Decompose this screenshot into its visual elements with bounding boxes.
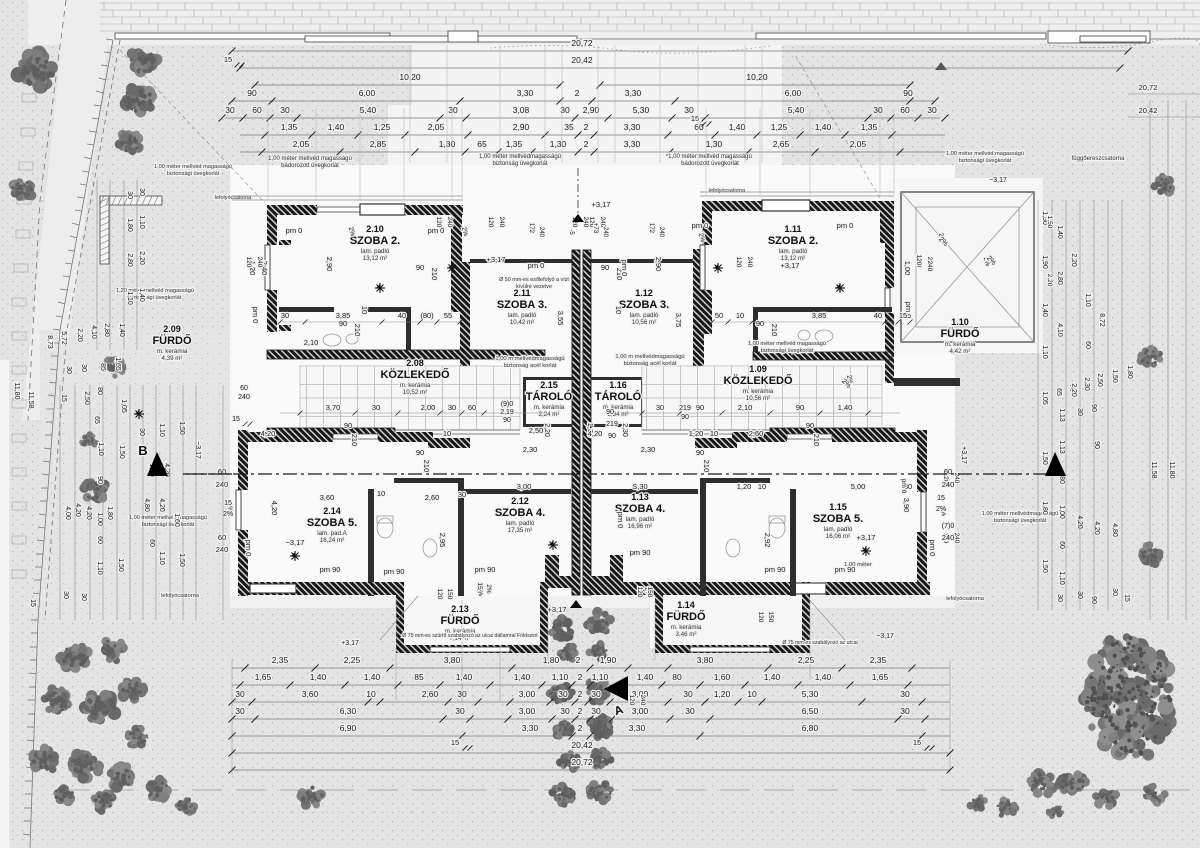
svg-text:2,60: 2,60 [422, 689, 439, 699]
tree at 597,691 [586, 678, 611, 706]
svg-text:210: 210 [430, 268, 439, 281]
svg-text:−3,17: −3,17 [876, 633, 894, 640]
svg-text:1.11: 1.11 [784, 224, 801, 234]
svg-text:10: 10 [614, 306, 623, 314]
svg-text:−3,17: −3,17 [989, 177, 1007, 184]
svg-text:120: 120 [735, 257, 742, 268]
svg-text:2,20: 2,20 [1070, 253, 1077, 267]
svg-text:1,00 m mellvédmagasságú: 1,00 m mellvédmagasságú [615, 354, 684, 360]
tree at 1150,357 [1137, 345, 1164, 368]
svg-text:30: 30 [1076, 591, 1083, 599]
svg-text:40: 40 [398, 311, 406, 320]
FURDO 1.10 bottom wall [894, 378, 960, 386]
svg-text:3,80: 3,80 [444, 655, 461, 665]
svg-text:2: 2 [584, 139, 589, 149]
retaining wall bars top [115, 31, 1150, 43]
svg-text:1,60: 1,60 [714, 672, 731, 682]
corridor bottom wall right [770, 428, 895, 436]
room label 2.14 SZOBA 5. [307, 506, 357, 544]
svg-text:50: 50 [715, 311, 723, 320]
svg-text:1,05: 1,05 [120, 399, 127, 413]
svg-text:+3,17: +3,17 [592, 200, 611, 209]
svg-text:85: 85 [414, 672, 424, 682]
tree at 85,765 [68, 749, 104, 784]
corridor wall left unit [267, 350, 545, 359]
svg-text:2,20: 2,20 [1070, 383, 1077, 397]
svg-text:2,25: 2,25 [798, 655, 815, 665]
svg-text:65: 65 [1055, 388, 1062, 396]
svg-text:KÖZLEKEDŐ: KÖZLEKEDŐ [380, 368, 450, 381]
svg-text:1,40: 1,40 [838, 403, 853, 412]
svg-text:90: 90 [606, 409, 614, 416]
tree at 64,793 [54, 784, 76, 806]
svg-text:1,10: 1,10 [158, 551, 165, 565]
tree at 114,368 [100, 356, 127, 379]
svg-text:16,06 m²: 16,06 m² [826, 533, 850, 540]
svg-text:pm 0: pm 0 [900, 479, 907, 494]
top construction vertical lines [268, 45, 894, 200]
svg-text:Ø 50 mm-es esőlefolyó a vízt: Ø 50 mm-es esőlefolyó a vízt [499, 277, 569, 283]
svg-text:15: 15 [913, 738, 921, 747]
svg-text:(80): (80) [420, 311, 434, 320]
svg-text:lam. padló: lam. padló [626, 516, 655, 523]
room label 1.14 FÜRDŐ [666, 600, 706, 638]
svg-text:3,00: 3,00 [519, 689, 536, 699]
svg-text:(9)0: (9)0 [501, 401, 514, 408]
svg-text:3,90: 3,90 [902, 498, 911, 513]
svg-text:1,80: 1,80 [1041, 501, 1048, 515]
svg-text:2.12: 2.12 [511, 496, 529, 506]
svg-text:biztonság üvegkorlát: biztonság üvegkorlát [492, 161, 547, 167]
inner walls right unit corridor [753, 307, 892, 312]
svg-text:1,25: 1,25 [374, 122, 391, 132]
room label 2.10 SZOBA 2. [350, 224, 400, 262]
wall top SZOBA2 left [267, 205, 317, 215]
svg-text:biztonsági üvegkorlát: biztonsági üvegkorlát [994, 518, 1047, 524]
svg-text:2,60: 2,60 [749, 429, 764, 438]
svg-text:1.09: 1.09 [749, 364, 767, 374]
svg-text:5,30: 5,30 [633, 105, 650, 115]
svg-text:1,80: 1,80 [543, 655, 560, 665]
svg-text:1,50: 1,50 [117, 558, 124, 572]
svg-text:240: 240 [216, 480, 229, 489]
svg-text:3,85: 3,85 [336, 311, 351, 320]
svg-text:S,30: S,30 [632, 482, 647, 491]
svg-text:6,50: 6,50 [802, 706, 819, 716]
svg-text:1,35: 1,35 [861, 122, 878, 132]
svg-text:1,05: 1,05 [1041, 391, 1048, 405]
dimension chain top 20,42 [240, 67, 1120, 69]
svg-text:1.14: 1.14 [677, 600, 695, 610]
svg-text:5,72: 5,72 [60, 331, 67, 345]
tree at 95,490 [79, 478, 109, 503]
svg-text:210: 210 [353, 324, 362, 337]
svg-text:2%: 2% [223, 511, 233, 518]
svg-text:60: 60 [96, 536, 103, 544]
svg-text:+3,17: +3,17 [341, 640, 359, 647]
svg-text:5,30: 5,30 [802, 689, 819, 699]
corridor bottom wall left [267, 428, 395, 436]
tree at 312,796 [296, 786, 326, 810]
svg-text:1,00 méter mellvéd magasságú: 1,00 méter mellvéd magasságú [946, 151, 1024, 157]
svg-text:30: 30 [1111, 588, 1118, 596]
svg-text:1,65: 1,65 [872, 672, 889, 682]
svg-text:−3,17: −3,17 [286, 538, 305, 547]
porch white area right [888, 178, 1043, 353]
svg-text:1.10: 1.10 [951, 317, 969, 327]
svg-text:240: 240 [602, 227, 608, 238]
svg-text:5,40: 5,40 [360, 105, 377, 115]
svg-text:2,35: 2,35 [272, 655, 289, 665]
tree at 598,652 [586, 640, 608, 662]
svg-text:60: 60 [1084, 341, 1091, 349]
svg-text:m. kerámia: m. kerámia [945, 341, 976, 348]
svg-text:3,00: 3,00 [517, 482, 532, 491]
svg-text:5,00: 5,00 [851, 482, 866, 491]
svg-text:1,50: 1,50 [178, 421, 185, 435]
tree at 138,100 [120, 83, 157, 117]
SZOBA3 right unit right wall [693, 249, 704, 374]
small level triangles [572, 214, 584, 222]
svg-text:30: 30 [138, 188, 145, 196]
svg-text:90: 90 [601, 263, 609, 272]
svg-text:20,72: 20,72 [571, 38, 593, 48]
svg-text:2,05: 2,05 [428, 122, 445, 132]
svg-text:pm 90: pm 90 [630, 548, 651, 557]
svg-text:FÜRDŐ: FÜRDŐ [666, 610, 706, 623]
svg-text:2,20: 2,20 [138, 251, 145, 265]
svg-text:15: 15 [224, 500, 232, 507]
svg-text:2.09: 2.09 [163, 324, 181, 334]
svg-text:120: 120 [636, 587, 643, 598]
svg-text:1,80: 1,80 [1126, 365, 1133, 379]
svg-text:15: 15 [476, 582, 483, 590]
svg-text:65: 65 [477, 139, 487, 149]
svg-text:1,65: 1,65 [255, 672, 272, 682]
svg-text:240: 240 [582, 217, 589, 228]
svg-text:+73: +73 [592, 223, 598, 234]
svg-text:80: 80 [1058, 476, 1065, 484]
svg-text:30: 30 [455, 706, 465, 716]
svg-text:240: 240 [446, 217, 453, 228]
svg-text:pm 90: pm 90 [765, 565, 786, 574]
svg-text:80: 80 [96, 387, 103, 395]
svg-text:240: 240 [538, 227, 544, 238]
svg-text:60: 60 [240, 385, 248, 392]
dimension chain top row6 [240, 151, 945, 153]
svg-text:20,42: 20,42 [571, 740, 593, 750]
svg-text:90: 90 [806, 421, 814, 430]
tree at 601,760 [590, 747, 615, 770]
svg-text:1.16: 1.16 [609, 380, 627, 390]
svg-text:1,13: 1,13 [1058, 408, 1065, 422]
room label 1.16 TÁROLÓ [595, 380, 642, 418]
svg-text:30: 30 [685, 706, 695, 716]
svg-text:2.15: 2.15 [540, 380, 558, 390]
svg-text:90: 90 [756, 319, 764, 328]
room label 2.09 FÜRDŐ [152, 324, 192, 362]
svg-text:30: 30 [1056, 594, 1063, 602]
svg-text:-5: -5 [568, 229, 574, 235]
svg-text:30: 30 [448, 105, 458, 115]
svg-text:30: 30 [458, 490, 466, 499]
svg-text:240: 240 [216, 545, 229, 554]
svg-text:219: 219 [679, 405, 691, 412]
tree at 105,801 [91, 789, 117, 815]
TAROLO 2.15 box walls [523, 377, 572, 380]
bottom wall right unit [591, 582, 661, 595]
svg-text:biztonsági üvegkorlát: biztonsági üvegkorlát [761, 348, 814, 354]
svg-text:2,25: 2,25 [344, 655, 361, 665]
svg-text:30: 30 [457, 689, 467, 699]
svg-text:13,12 m²: 13,12 m² [363, 255, 387, 262]
svg-text:2,20: 2,20 [1046, 274, 1053, 287]
section marker A bottom triangle [604, 676, 628, 701]
svg-text:1,20: 1,20 [689, 429, 704, 438]
wall left SZOBA2 right unit [702, 201, 712, 245]
left vertical chain lines [60, 180, 223, 620]
svg-text:SZOBA 2.: SZOBA 2. [350, 235, 400, 247]
svg-text:2,92: 2,92 [763, 533, 772, 548]
svg-text:3,00: 3,00 [632, 706, 649, 716]
svg-text:60: 60 [148, 539, 155, 547]
svg-text:biztonság acél korlát: biztonság acél korlát [504, 363, 557, 369]
svg-text:11,58: 11,58 [27, 392, 34, 409]
svg-text:bádorozott üvegkorlát: bádorozott üvegkorlát [681, 161, 739, 167]
svg-text:4,20: 4,20 [1076, 515, 1083, 529]
tree at 978,804 [967, 794, 988, 812]
svg-text:240: 240 [926, 261, 933, 272]
top wall lower band left [238, 432, 333, 442]
svg-text:+3,17: +3,17 [781, 261, 800, 270]
SZOBA4 right unit top wall [591, 489, 698, 494]
svg-text:1,35: 1,35 [281, 122, 298, 132]
svg-text:1,50: 1,50 [1111, 369, 1118, 383]
svg-text:240: 240 [658, 227, 664, 238]
svg-text:30: 30 [126, 191, 133, 199]
svg-text:1.12: 1.12 [635, 288, 653, 298]
svg-text:15: 15 [937, 495, 945, 502]
svg-text:55: 55 [444, 311, 452, 320]
svg-text:bádorozott üvegkorlát: bádorozott üvegkorlát [281, 163, 339, 169]
svg-text:10: 10 [710, 429, 718, 438]
svg-text:1,35: 1,35 [506, 139, 523, 149]
svg-text:SZOBA 4.: SZOBA 4. [495, 507, 545, 519]
svg-text:15: 15 [29, 599, 36, 607]
svg-text:90: 90 [96, 476, 103, 484]
room label 1.15 SZOBA 5. [813, 502, 863, 540]
wall left SZOBA2 upper [267, 205, 277, 245]
dimension chain top row5 [240, 134, 945, 136]
tree at 134,690 [118, 677, 149, 704]
dim row under szoba2 left [280, 321, 460, 323]
svg-text:2,30: 2,30 [641, 445, 656, 454]
wall top SZOBA2 right unit [702, 201, 762, 211]
tree at 600,793 [586, 780, 614, 805]
svg-text:2: 2 [575, 88, 580, 98]
svg-text:2,30: 2,30 [523, 445, 538, 454]
plan bottom white band [230, 596, 955, 608]
svg-text:219: 219 [606, 421, 618, 428]
svg-text:lefolyócsatorna: lefolyócsatorna [946, 596, 985, 602]
svg-text:4,20: 4,20 [261, 429, 276, 438]
svg-text:3,85: 3,85 [812, 311, 827, 320]
tree at 1041,784 [1027, 768, 1058, 798]
svg-text:m. kerámia: m. kerámia [157, 348, 188, 355]
svg-text:lefolyócsatorna: lefolyócsatorna [161, 593, 200, 599]
svg-text:TÁROLÓ: TÁROLÓ [595, 390, 642, 403]
svg-text:90: 90 [339, 319, 347, 328]
svg-text:1,40: 1,40 [138, 288, 145, 302]
svg-text:2,80: 2,80 [126, 253, 133, 267]
svg-text:2,50: 2,50 [1096, 373, 1103, 387]
big tree bottom right [1078, 633, 1177, 760]
tree at 185,806 [175, 797, 199, 816]
svg-text:11,80: 11,80 [1168, 462, 1175, 479]
svg-text:pm 0: pm 0 [616, 512, 625, 529]
diag leader top left [120, 50, 265, 203]
svg-text:2,90: 2,90 [654, 257, 663, 272]
window top wall left [360, 204, 405, 215]
svg-text:30: 30 [558, 689, 568, 699]
svg-text:+3,17: +3,17 [548, 605, 567, 614]
top-center white drawing zone [388, 45, 782, 165]
svg-text:3,30: 3,30 [522, 723, 539, 733]
inner wall below SZOBA2 [279, 307, 334, 312]
svg-text:2.08: 2.08 [406, 358, 424, 368]
left boundary white band [22, 0, 114, 420]
svg-text:1.13: 1.13 [631, 492, 649, 502]
svg-text:FÜRDŐ: FÜRDŐ [152, 334, 192, 347]
svg-text:30: 30 [372, 403, 380, 412]
outer right wall lower [917, 430, 927, 492]
svg-text:4,20: 4,20 [270, 501, 279, 516]
svg-text:Ø 75 mm-es szabályozó az utcai: Ø 75 mm-es szabályozó az utcai [782, 640, 857, 646]
svg-text:90: 90 [796, 403, 804, 412]
bath fixtures corridor pockets [323, 330, 833, 557]
svg-text:m. kerámia: m. kerámia [671, 624, 702, 631]
fence strip top white [28, 0, 1200, 45]
svg-text:30: 30 [280, 105, 290, 115]
svg-text:−3,17: −3,17 [194, 441, 201, 459]
svg-text:16,96 m²: 16,96 m² [628, 523, 652, 530]
svg-text:60: 60 [694, 122, 704, 132]
svg-text:240: 240 [746, 257, 753, 268]
svg-text:3,30: 3,30 [517, 88, 534, 98]
svg-text:30: 30 [80, 364, 87, 372]
wall right of SZOBA2 [451, 207, 462, 312]
svg-text:3,30: 3,30 [624, 139, 641, 149]
svg-text:1,40: 1,40 [456, 672, 473, 682]
room label 2.12 SZOBA 4. [495, 496, 545, 534]
svg-text:1,40: 1,40 [815, 672, 832, 682]
svg-text:2,10: 2,10 [738, 403, 753, 412]
svg-text:m. kerámia: m. kerámia [400, 382, 431, 389]
tree at 562,629 [548, 614, 574, 642]
svg-text:biztonság acél korlát: biztonság acél korlát [624, 361, 677, 367]
svg-text:pm 90: pm 90 [475, 565, 496, 574]
svg-text:4,20: 4,20 [85, 506, 92, 520]
svg-text:3,30: 3,30 [625, 88, 642, 98]
tree at 565,729 [552, 720, 574, 740]
svg-text:20,72: 20,72 [571, 757, 593, 767]
room label 1.12 SZOBA 3. [619, 288, 669, 326]
svg-text:1,50: 1,50 [1041, 451, 1048, 465]
svg-text:4,80: 4,80 [1111, 523, 1118, 537]
room label 2.15 TÁROLÓ [526, 380, 573, 418]
svg-text:1,40: 1,40 [815, 122, 832, 132]
svg-text:15: 15 [1123, 594, 1130, 602]
svg-text:60: 60 [1058, 541, 1065, 549]
SZOBA3 top thin wall [470, 259, 572, 263]
svg-text:pm 90: pm 90 [835, 565, 856, 574]
svg-text:1,40: 1,40 [328, 122, 345, 132]
svg-text:3,75: 3,75 [674, 313, 683, 328]
svg-text:5,40: 5,40 [788, 105, 805, 115]
party wall axis dashdot [577, 168, 579, 214]
dimension chain top 10,20 rows [255, 84, 560, 86]
svg-text:1,10: 1,10 [138, 215, 145, 229]
svg-text:lam. padló: lam. padló [508, 312, 537, 319]
svg-text:1,00 méter mellvédmagasságú: 1,00 méter mellvédmagasságú [479, 154, 561, 160]
svg-text:1,10: 1,10 [96, 561, 103, 575]
svg-text:SZOBA 3.: SZOBA 3. [497, 299, 547, 311]
tree at 157,790 [146, 775, 172, 803]
svg-text:4,00: 4,00 [64, 506, 71, 520]
svg-text:1,00 m mellvédmagasságú: 1,00 m mellvédmagasságú [495, 356, 564, 362]
svg-text:30: 30 [656, 403, 664, 412]
tree at 1006,808 [997, 797, 1020, 818]
svg-text:1,60: 1,60 [173, 513, 180, 527]
svg-text:2,80: 2,80 [103, 323, 110, 337]
svg-text:+3,17: +3,17 [487, 255, 506, 264]
tree at 561,695 [546, 682, 576, 704]
svg-text:90: 90 [1090, 596, 1097, 604]
outer left wall lower [238, 430, 248, 490]
tree at 143,62 [127, 48, 163, 77]
svg-text:m. kerámia: m. kerámia [534, 404, 565, 411]
svg-text:2,80: 2,80 [1056, 271, 1063, 285]
corridor tile grid right unit [642, 366, 882, 430]
svg-text:1,90: 1,90 [1041, 255, 1048, 269]
svg-text:(7)0: (7)0 [942, 523, 955, 530]
svg-text:3,30: 3,30 [624, 122, 641, 132]
wall right SZOBA2 right unit [880, 201, 894, 243]
svg-text:30: 30 [927, 105, 937, 115]
svg-text:10: 10 [360, 306, 369, 314]
svg-text:2: 2 [578, 672, 583, 682]
svg-text:1.15: 1.15 [829, 502, 847, 512]
bath 1.14 extension [655, 645, 810, 653]
svg-text:B: B [138, 443, 147, 458]
section line B horizontal [183, 473, 1048, 475]
svg-text:1,20: 1,20 [737, 482, 752, 491]
level marker stars [447, 263, 457, 273]
svg-text:85: 85 [99, 363, 106, 371]
svg-text:pm 0: pm 0 [928, 540, 937, 557]
svg-text:30: 30 [225, 105, 235, 115]
svg-text:1,00 méter mellvéd magasságú: 1,00 méter mellvéd magasságú [268, 156, 352, 162]
svg-text:lam. padló: lam. padló [506, 520, 535, 527]
svg-text:20,42: 20,42 [1139, 106, 1158, 115]
room label 2.13 FÜRDŐ [440, 604, 480, 642]
svg-text:30: 30 [591, 706, 601, 716]
window bottom SZOBA5 [250, 584, 296, 593]
tree at 44,760 [29, 744, 59, 774]
svg-text:1,50: 1,50 [178, 553, 185, 567]
svg-text:10,52 m²: 10,52 m² [403, 389, 427, 396]
svg-text:1,10: 1,10 [552, 672, 569, 682]
